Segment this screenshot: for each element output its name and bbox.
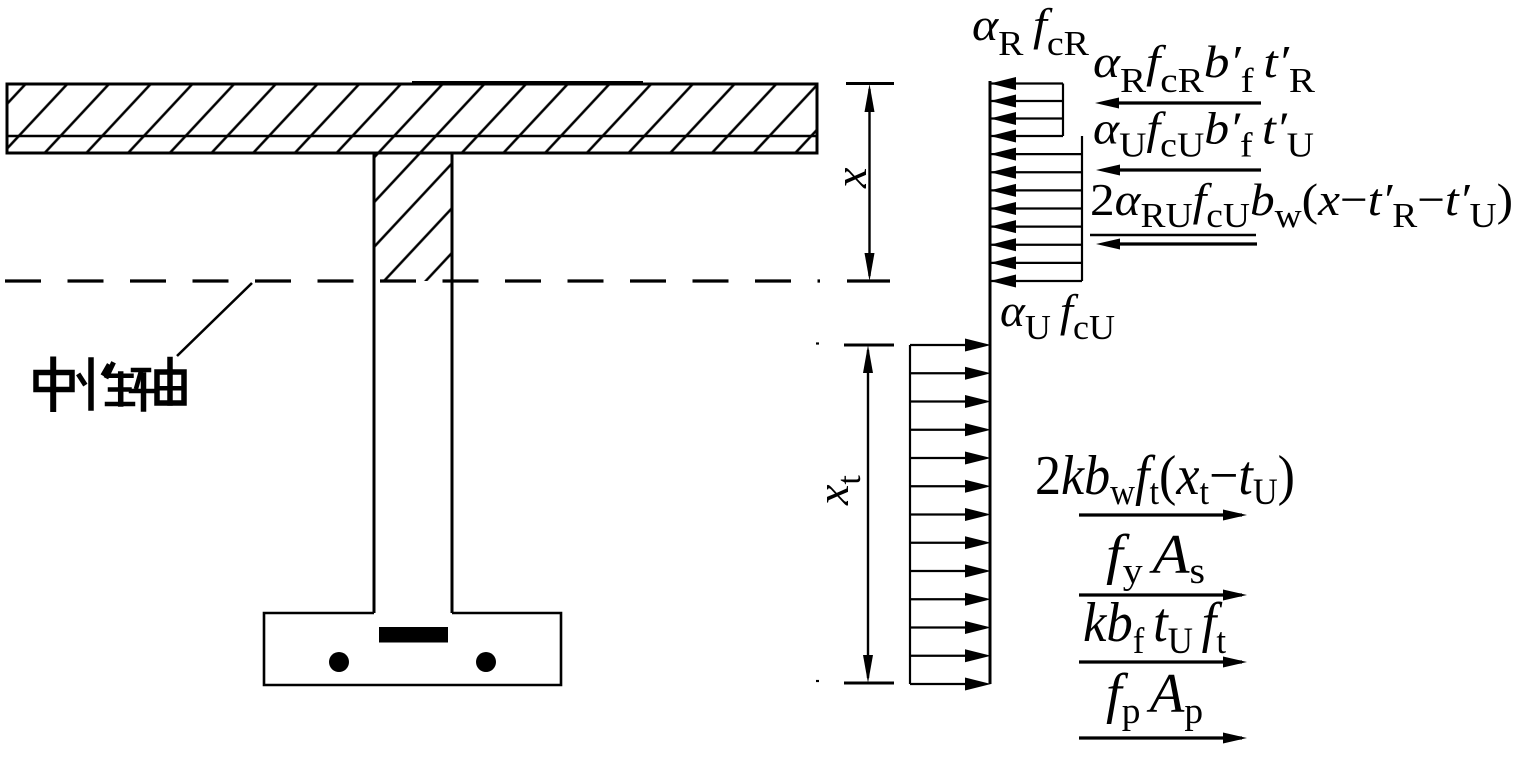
compression arrowhead 7 xyxy=(990,184,1016,197)
compression arrowhead 2 xyxy=(990,95,1016,108)
dimension xt: top extension dot xyxy=(816,342,819,344)
flange top edge doubled segment xyxy=(412,81,643,83)
tension arrowhead 11 xyxy=(965,621,991,634)
dimension xt: top extension tick xyxy=(844,344,894,347)
U-layer stress rung 6 xyxy=(990,244,1082,246)
tension rung 5 xyxy=(910,457,968,459)
tension rung 4 xyxy=(910,429,968,431)
tension rung 13 xyxy=(910,683,968,685)
force arrow 2 k bw ft xyxy=(1079,513,1242,516)
tension arrowhead 2 xyxy=(965,367,991,380)
tension rung 8 xyxy=(910,542,968,544)
tension arrowhead 8 xyxy=(965,536,991,549)
dimension xt: top arrowhead xyxy=(863,345,873,373)
force arrow 2 alphaRU fcU bw xyxy=(1107,242,1257,245)
tension rung 12 xyxy=(910,655,968,657)
force arrow k bf tU ft xyxy=(1079,660,1242,663)
compression arrowhead 6 xyxy=(990,166,1016,179)
dimension x: top extension tick xyxy=(846,82,894,85)
tension rung 9 xyxy=(910,570,968,572)
U-layer stress rung 7 xyxy=(990,262,1082,264)
label 中性轴 (neutral axis) xyxy=(36,360,184,410)
U-layer stress block right edge xyxy=(1081,136,1083,281)
prestress duct black bar xyxy=(379,627,448,643)
tension rung 11 xyxy=(910,626,968,628)
U-layer stress rung 3 xyxy=(990,189,1082,191)
rebar dot left xyxy=(329,652,349,672)
force arrow alphaR fcR bf tR xyxy=(1106,101,1261,104)
compression face vertical line xyxy=(989,81,992,684)
R-layer stress rung 2 xyxy=(990,100,1063,102)
flange inner horizontal line (layer boundary) xyxy=(7,135,817,138)
dimension x: bottom extension tick xyxy=(847,279,890,282)
tension arrowhead 6 xyxy=(965,480,991,493)
dimension x: bottom arrowhead xyxy=(865,253,875,281)
dimension x: vertical line xyxy=(868,89,870,276)
tension rung 6 xyxy=(910,485,968,487)
U-layer stress rung 1 xyxy=(990,153,1082,155)
tension arrowhead 13 xyxy=(965,678,991,691)
compression arrowhead 10 xyxy=(990,238,1016,251)
compression arrowhead 12 xyxy=(990,275,1016,288)
tension arrowhead 7 xyxy=(965,508,991,521)
tension arrowhead 12 xyxy=(965,649,991,662)
web right edge xyxy=(451,153,454,613)
rebar dot right xyxy=(476,652,496,672)
web left edge xyxy=(373,153,376,613)
tension rung 10 xyxy=(910,598,968,600)
force arrow alphaU fcU bf tU xyxy=(1107,168,1261,171)
force arrow fp Ap xyxy=(1079,736,1242,739)
dimension xt: bottom arrowhead xyxy=(863,655,873,683)
compression arrowhead 9 xyxy=(990,220,1016,233)
dimension xt: bottom extension dot xyxy=(816,680,819,682)
U-layer stress rung 2 xyxy=(990,171,1082,173)
neutral axis dashed line xyxy=(5,279,820,282)
tension arrowhead 1 xyxy=(965,339,991,352)
dimension xt: vertical line xyxy=(867,350,869,678)
tension arrowhead 9 xyxy=(965,565,991,578)
svg-text:kbf tU ft: kbf tU ft xyxy=(1083,592,1227,662)
tension block left edge xyxy=(909,345,911,684)
web compression zone hatched fill xyxy=(374,153,452,281)
tension arrowhead 4 xyxy=(965,423,991,436)
tension rung 3 xyxy=(910,400,968,402)
underline under 2 alphaRU fcU xyxy=(1090,234,1256,236)
tension rung 1 xyxy=(910,344,968,346)
R-layer stress rung 4 xyxy=(990,135,1063,137)
compression arrowhead 3 xyxy=(990,112,1016,125)
tension rung 7 xyxy=(910,513,968,515)
compression arrowhead 8 xyxy=(990,202,1016,215)
compression arrowhead 5 xyxy=(990,148,1016,161)
R-layer stress rung 1 xyxy=(990,82,1063,84)
tension arrowhead 5 xyxy=(965,452,991,465)
dimension x: top arrowhead xyxy=(865,84,875,112)
tension rung 2 xyxy=(910,372,968,374)
U-layer stress rung 5 xyxy=(990,226,1082,228)
force arrow fy As xyxy=(1079,593,1242,596)
tension arrowhead 10 xyxy=(965,593,991,606)
dimension xt: bottom extension tick xyxy=(844,682,894,685)
compression arrowhead 11 xyxy=(990,256,1016,269)
bottom bulb outline xyxy=(264,613,561,685)
compression arrowhead 1 xyxy=(990,77,1016,90)
top flange outline xyxy=(7,84,817,153)
U-layer stress rung 8 xyxy=(990,280,1082,282)
R-layer stress rung 3 xyxy=(990,117,1063,119)
compression arrowhead 4 xyxy=(990,130,1016,143)
neutral axis leader line xyxy=(177,283,252,356)
tension arrowhead 3 xyxy=(965,395,991,408)
svg-text:x: x xyxy=(825,167,876,189)
top flange hatched fill xyxy=(7,84,817,153)
R-layer stress block right edge xyxy=(1062,84,1064,137)
U-layer stress rung 4 xyxy=(990,207,1082,209)
